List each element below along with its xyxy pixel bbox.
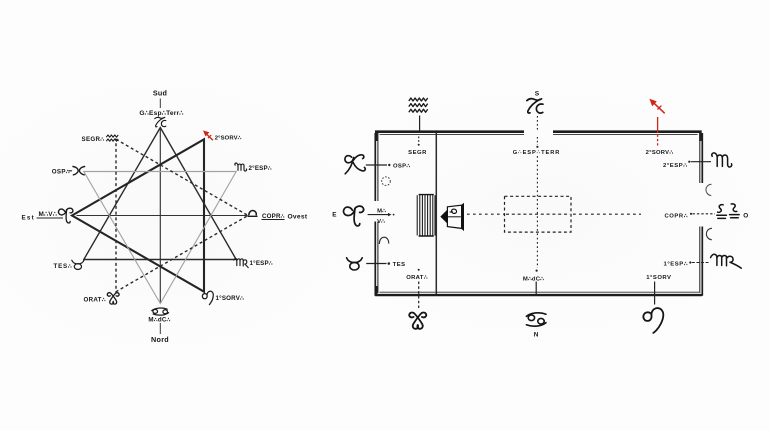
pisces glyph right kappa <box>345 155 365 174</box>
wire COPR dashed line <box>693 213 716 215</box>
wire SEGR dashed inside <box>418 137 420 144</box>
dotted vertical axis center <box>536 156 538 268</box>
libra glyph right <box>717 204 739 219</box>
aquarius glyph right <box>409 98 428 112</box>
door arc right lower <box>706 228 712 240</box>
wire 1 SORV down <box>654 282 656 305</box>
svg-text:G∴ESP∴TERR: G∴ESP∴TERR <box>513 150 561 156</box>
wire 2 ESP line <box>691 161 711 163</box>
dashed line square to COPR <box>573 213 641 215</box>
node underline M.V. <box>37 217 64 219</box>
node dot above SEGR <box>418 144 420 146</box>
svg-text:N: N <box>534 332 539 339</box>
wire vertical axis Sud segment <box>159 99 161 109</box>
red arrow right <box>649 99 664 114</box>
wire horizontal axis Aries-Libra diameter <box>77 215 248 217</box>
node dot after arrow <box>393 214 395 216</box>
dashed square quadro <box>505 196 572 232</box>
leo glyph left <box>202 291 213 304</box>
wire vertical axis Capricorn-Cancer diameter <box>159 128 161 304</box>
cancer glyph right <box>526 313 546 326</box>
gemini butterfly right <box>409 312 426 328</box>
wire SEGR line outside <box>419 116 421 131</box>
aries glyph right <box>344 206 364 226</box>
capricorn glyph right <box>527 99 543 113</box>
node arrow dot M V <box>388 213 392 216</box>
earth triangle Capricorn-Virgo-Taurus <box>84 128 236 260</box>
svg-text:M∴: M∴ <box>377 208 386 214</box>
fire triangle Aries-Sagittarius-Leo thick <box>72 139 204 291</box>
RIGHT DIAGRAM : lodge floor plan <box>332 90 748 338</box>
wall bottom outer <box>376 286 702 295</box>
svg-text:G∴Esp∴Terr∴: G∴Esp∴Terr∴ <box>139 110 184 117</box>
cancer glyph left <box>152 308 169 315</box>
svg-text:1°ESP∴: 1°ESP∴ <box>664 262 688 268</box>
svg-text:COPR∴: COPR∴ <box>664 214 688 220</box>
wall top outer <box>376 132 700 141</box>
svg-text:2°ESP∴: 2°ESP∴ <box>249 165 272 172</box>
svg-text:M∴dC∴: M∴dC∴ <box>148 317 170 324</box>
dotted vertical axis top <box>536 116 538 130</box>
svg-text:2°ESP∴: 2°ESP∴ <box>663 163 687 169</box>
wire TES line <box>366 263 386 265</box>
wire M dC to wall <box>535 282 537 296</box>
capricorn glyph left <box>155 117 166 126</box>
wire M V entrance arrow <box>368 214 388 216</box>
svg-text:ORAT∴: ORAT∴ <box>406 275 428 281</box>
gemini butterfly glyph left <box>107 293 119 304</box>
node dot OSP <box>388 164 390 166</box>
svg-text:E: E <box>332 212 337 219</box>
svg-text:Sud: Sud <box>153 89 167 98</box>
svg-text:S: S <box>535 90 540 97</box>
svg-text:1°SORV∴: 1°SORV∴ <box>216 295 245 302</box>
taurus glyph right <box>347 258 363 270</box>
svg-text:Est: Est <box>22 215 36 222</box>
node dot above M dC <box>536 270 538 272</box>
node dot above G ESP TERR <box>536 146 538 148</box>
air triangle Aquarius-Libra-Gemini dashed <box>116 139 248 291</box>
altar icon with triangle <box>440 204 463 231</box>
svg-text:SEGR: SEGR <box>408 150 427 156</box>
svg-text:COPR∴: COPR∴ <box>262 213 285 220</box>
node dot 1 ESP <box>689 261 691 263</box>
wall left inner thin <box>377 133 379 293</box>
scorpio glyph right <box>712 153 732 167</box>
taurus glyph left <box>72 260 84 269</box>
svg-text:2°SORV∴: 2°SORV∴ <box>215 135 242 141</box>
wire vertical axis Nord segment <box>159 323 161 334</box>
node dot 2 ESP <box>688 161 690 163</box>
dotted vertical axis to label <box>536 137 538 145</box>
svg-text:V∴: V∴ <box>377 219 385 225</box>
svg-text:SEGR∴: SEGR∴ <box>82 136 105 143</box>
svg-text:1°SORV: 1°SORV <box>646 275 671 281</box>
wire ORAT dashed down <box>418 282 420 309</box>
door circle dashed left <box>382 177 391 186</box>
dashed path from altar to center <box>467 213 504 215</box>
svg-text:OSP∴: OSP∴ <box>393 163 410 169</box>
door arc right upper <box>706 184 712 195</box>
red line dashed <box>657 135 659 146</box>
node dot above ORAT <box>418 269 420 271</box>
svg-text:M∴V∴: M∴V∴ <box>39 211 58 218</box>
node dot COPR <box>690 213 692 215</box>
pisces glyph left <box>69 167 85 175</box>
wire OSP line <box>366 164 387 166</box>
svg-text:TES∴: TES∴ <box>54 263 73 270</box>
svg-text:2°SORV∴: 2°SORV∴ <box>646 150 674 156</box>
red arrow 2 SORV left <box>203 130 213 140</box>
wall top inner thin <box>380 134 698 136</box>
virgo glyph right <box>711 254 742 268</box>
hatched rectangle harmonium <box>417 195 435 236</box>
svg-text:O: O <box>743 212 748 219</box>
wall bottom inner thin <box>380 291 700 293</box>
wire 1 ESP line <box>692 262 709 264</box>
node dot TES <box>388 262 391 265</box>
svg-text:TES: TES <box>393 262 406 268</box>
svg-text:OSP∴: OSP∴ <box>52 169 70 176</box>
LEFT DIAGRAM : zodiac dodecagram <box>22 89 308 344</box>
virgo glyph left <box>234 259 249 268</box>
scorpio glyph left <box>235 163 247 171</box>
svg-text:Ovest: Ovest <box>288 214 308 221</box>
svg-text:Nord: Nord <box>151 335 169 344</box>
libra glyph left <box>248 211 257 217</box>
dashed line through square <box>506 213 570 215</box>
wall left outer <box>374 133 376 296</box>
aries glyph left <box>58 208 72 223</box>
wall right inner thin <box>699 133 701 293</box>
svg-text:M∴dC∴: M∴dC∴ <box>523 276 544 282</box>
water triangle Pisces-Scorpio-Cancer grey <box>84 172 236 304</box>
leo glyph right <box>643 308 663 333</box>
aquarius glyph left <box>106 135 118 141</box>
internal wall <box>435 133 437 295</box>
wall right outer <box>701 133 703 296</box>
red line solid <box>657 117 659 133</box>
door arc left lower <box>379 237 388 244</box>
svg-text:1°ESP∴: 1°ESP∴ <box>250 260 273 267</box>
svg-text:ORAT∴: ORAT∴ <box>83 297 106 304</box>
node underline COPR <box>262 219 285 221</box>
